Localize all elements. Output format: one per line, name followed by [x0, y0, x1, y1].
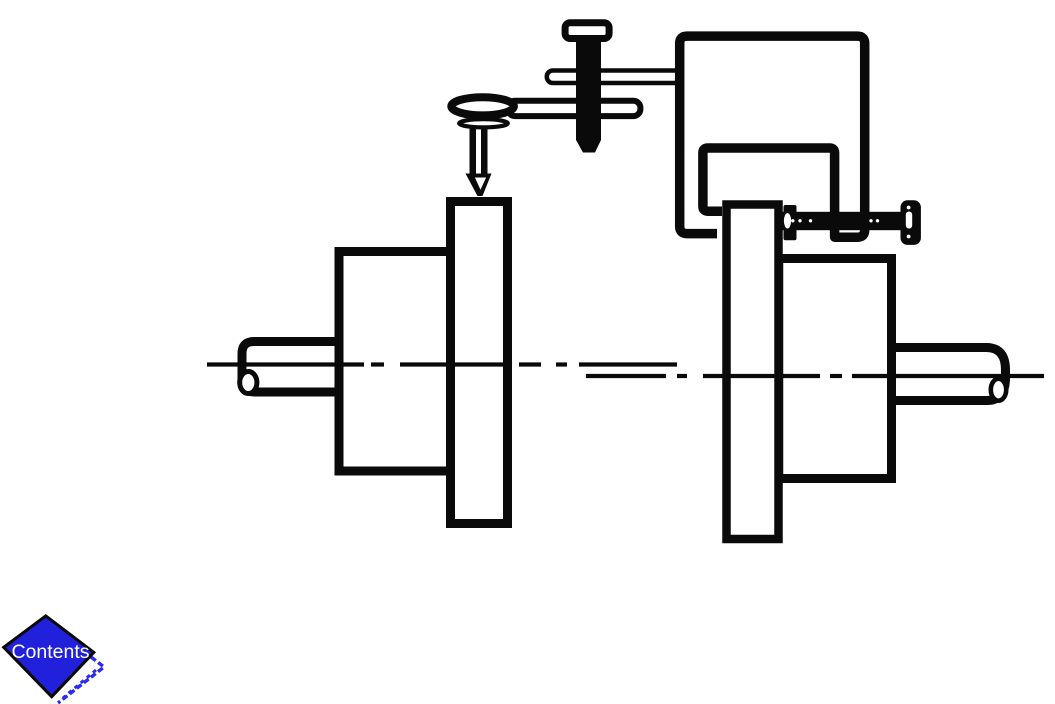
- right centerline: [586, 374, 1044, 378]
- clamp screw shaft: [779, 212, 901, 230]
- indicator arm lower bar: [508, 101, 640, 116]
- indicator stem left line: [470, 127, 477, 176]
- right hub body: [779, 259, 892, 479]
- clamp screw pad: [784, 205, 797, 240]
- dial indicator collar: [459, 119, 508, 127]
- left flange disc: [451, 202, 508, 524]
- right shaft end circle: [991, 379, 1006, 401]
- clamp screw ball highlight: [784, 213, 791, 228]
- left shaft: [242, 342, 338, 393]
- clamp bracket frame: [680, 36, 865, 237]
- left centerline: [207, 362, 677, 366]
- clamp screw knob slot: [906, 212, 912, 229]
- clamp bolt knob: [565, 23, 609, 39]
- clamp screw knob: [901, 200, 921, 245]
- indicator contact arrow: [466, 174, 492, 197]
- clamp screw thread dots: [791, 219, 879, 222]
- indicator arrow white notch: [475, 178, 486, 190]
- left shaft end circle: [240, 372, 257, 394]
- dial indicator body: [451, 97, 514, 115]
- contents button diamond: [4, 616, 94, 697]
- right flange disc: [727, 205, 779, 540]
- indicator stem right line: [481, 127, 488, 176]
- svg-text:Contents: Contents: [11, 641, 89, 663]
- clamp arm upper bar: [547, 71, 681, 84]
- clamp bolt shaft: [576, 38, 601, 153]
- right shaft: [896, 348, 1006, 401]
- left hub body: [339, 252, 451, 472]
- contents button shadow: [58, 657, 104, 703]
